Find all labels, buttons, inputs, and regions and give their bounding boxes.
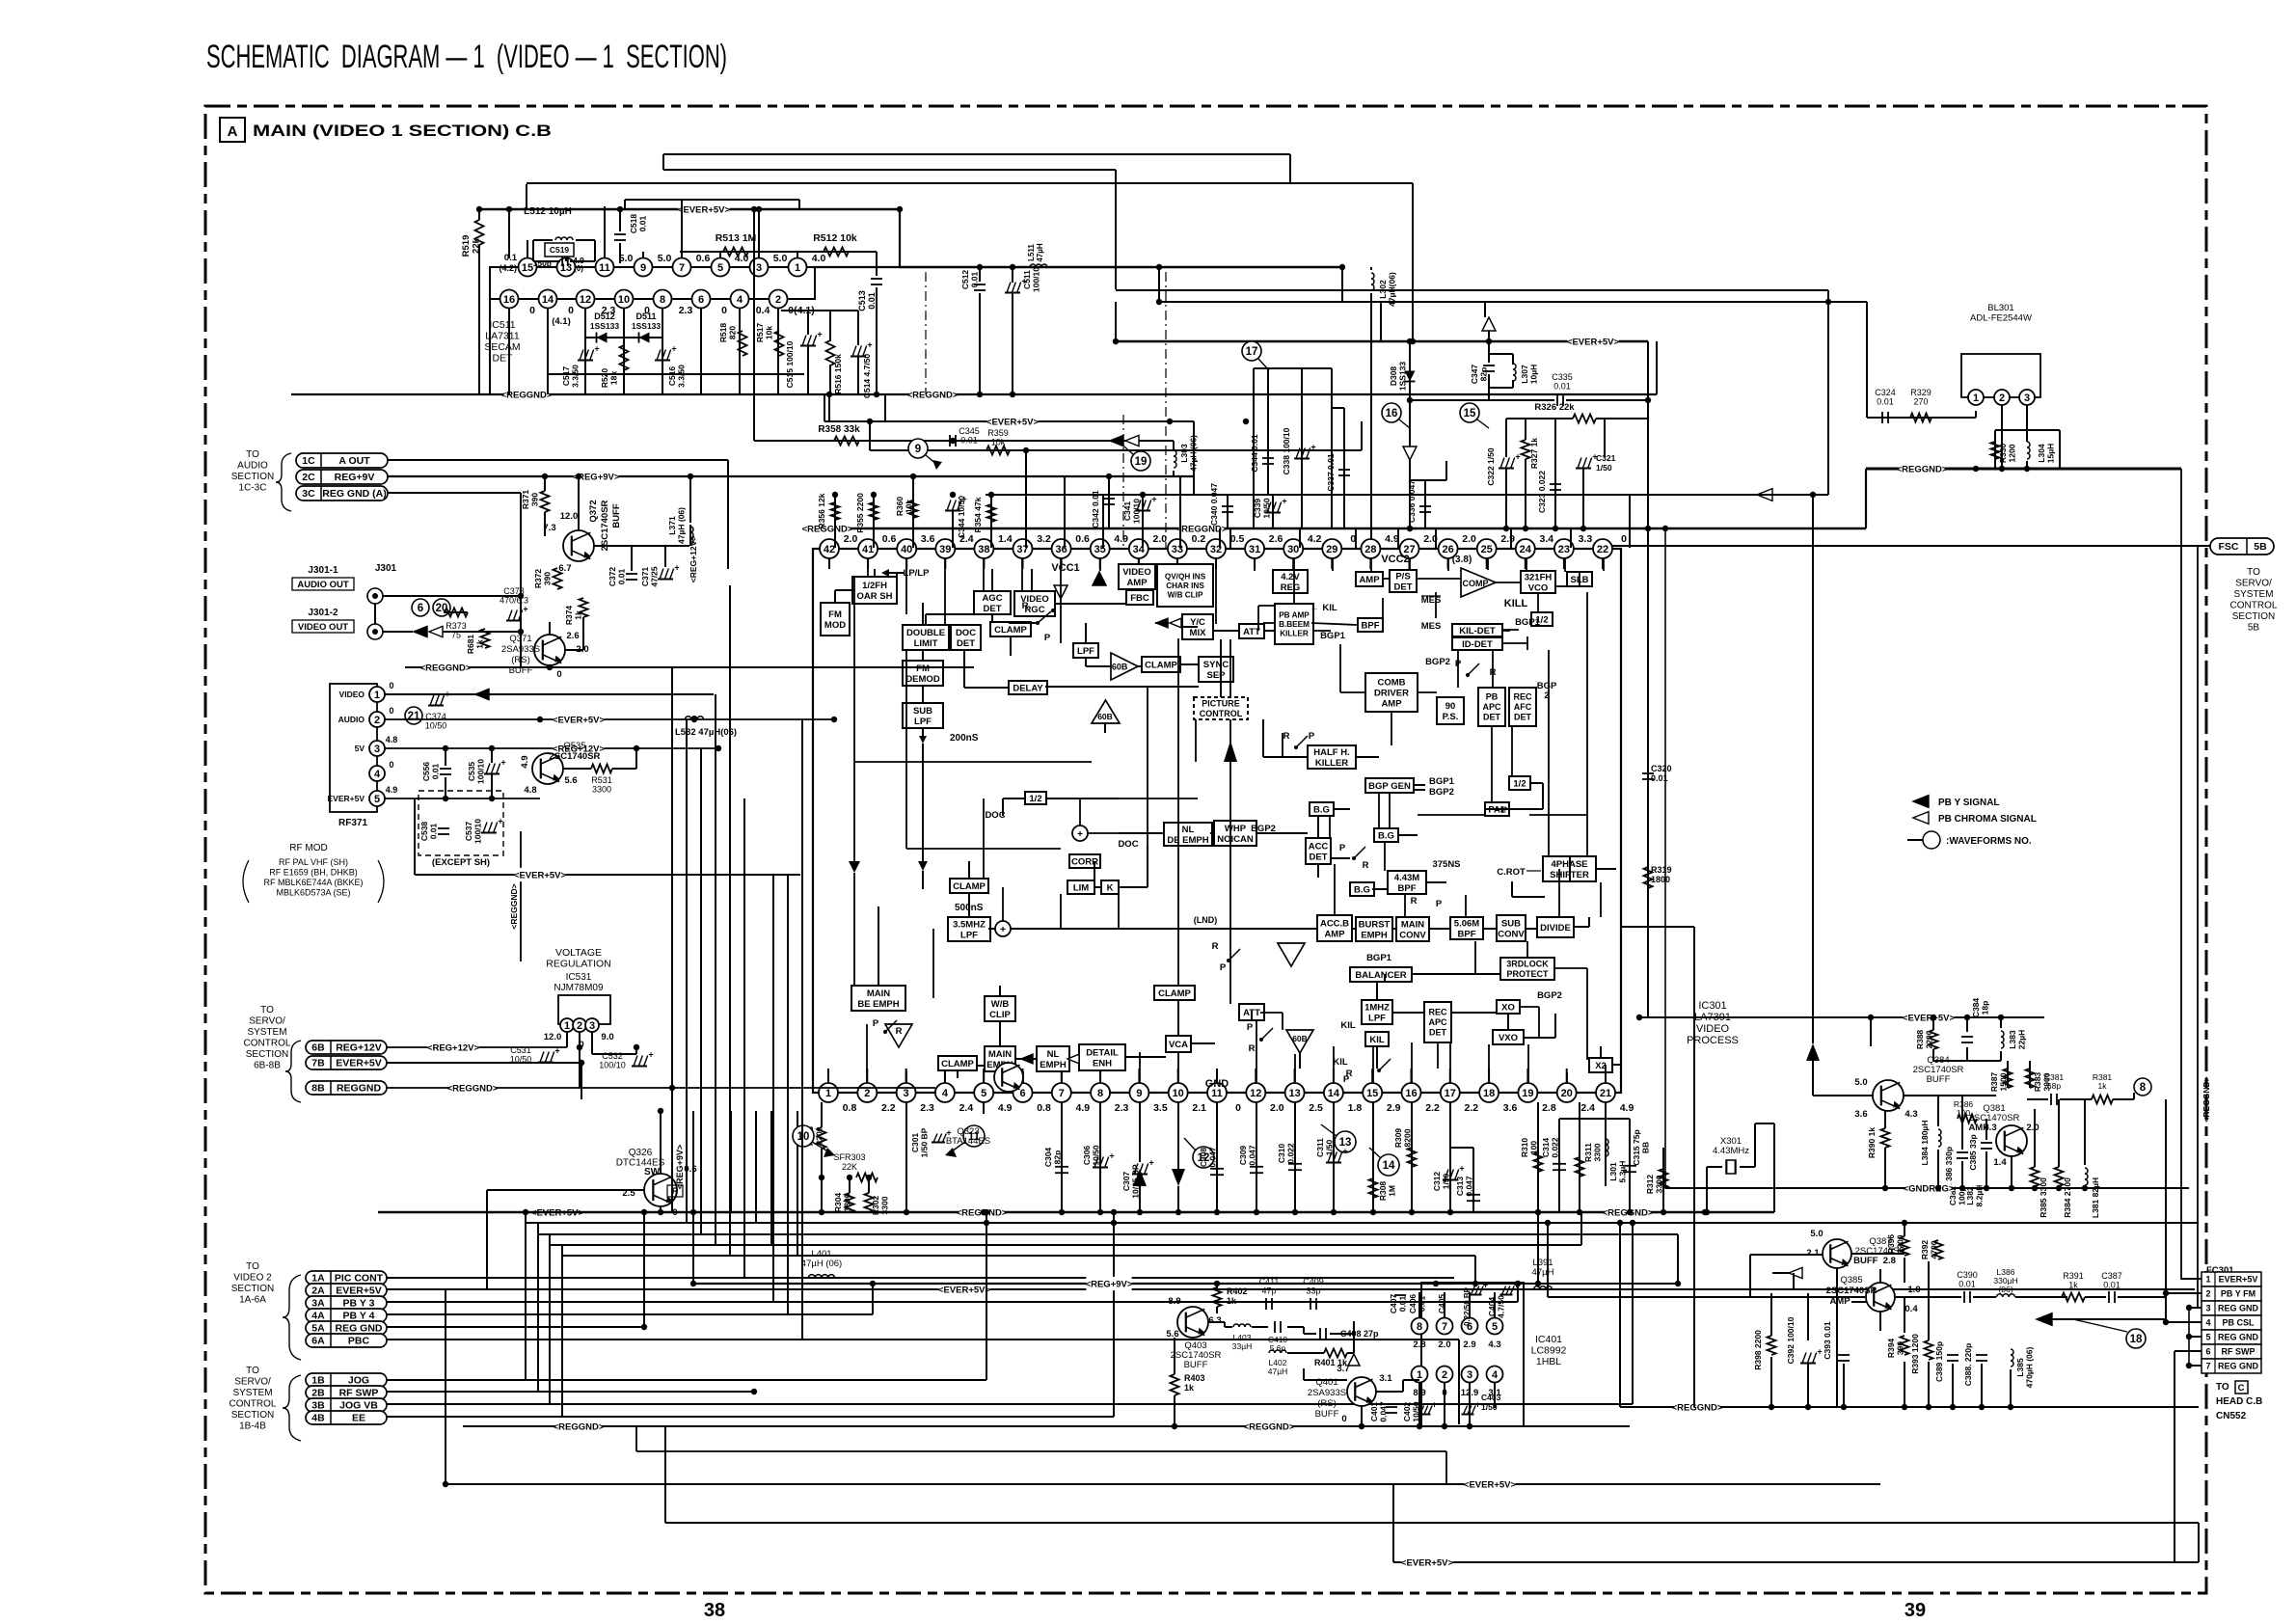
wire [1505,419,1507,457]
svg-text:R403: R403 [1184,1373,1205,1383]
junction [1931,1015,1936,1020]
IC301 internal box B.G box [1374,828,1398,842]
svg-text:C313: C313 [1455,1177,1465,1197]
svg-text:C323 0.022: C323 0.022 [1537,471,1547,513]
net label EVER+5V [1567,335,1618,348]
junction [1769,1404,1774,1410]
wire [957,1070,959,1078]
svg-text:30: 30 [1287,544,1299,555]
svg-text:5.0: 5.0 [773,253,788,264]
wire [445,748,446,766]
svg-text:<REG+12V>: <REG+12V> [427,1042,480,1053]
wire [561,1245,563,1417]
capacitor C336 0.047 [1424,480,1426,528]
svg-text:6: 6 [418,603,423,614]
wire [1003,798,1025,799]
wire [1260,1012,1283,1014]
svg-text:38: 38 [704,1600,725,1621]
wire [1502,630,1510,632]
wire [1851,1253,1904,1255]
wire [1180,663,1199,665]
wire pill 2A EVER+5V [387,1288,2195,1290]
signal arrow down [1172,1169,1185,1186]
svg-text:2.0: 2.0 [1270,1102,1284,1114]
junction [1059,1209,1065,1215]
svg-text:REGULATION: REGULATION [546,959,610,970]
svg-text:MIX: MIX [1190,628,1207,638]
svg-text:Q326: Q326 [629,1148,653,1158]
wire [1896,1296,1961,1298]
wire [1474,1256,1476,1284]
svg-text:VCO: VCO [1528,582,1549,593]
wire [1116,289,1828,291]
svg-text:38: 38 [978,544,989,555]
wire [1629,495,1631,548]
amplifier 60B [1111,653,1138,680]
svg-text:47µH: 47µH [1036,243,1044,262]
wire pill 4A PB Y 4 [387,1313,873,1315]
wire [1208,1321,1225,1323]
svg-text:C338 100/10: C338 100/10 [1282,427,1291,474]
svg-text:C371: C371 [640,567,650,587]
svg-text:2A: 2A [311,1286,325,1297]
wire [526,1222,2199,1224]
svg-text:DE EMPH: DE EMPH [1167,835,1208,846]
wire [1447,558,1449,569]
svg-text:P.S.: P.S. [1443,712,1459,722]
svg-text:4: 4 [374,769,381,780]
svg-text:+: + [1310,443,1315,452]
svg-text:ACC: ACC [1309,841,1329,852]
svg-text:KIL: KIL [1322,603,1337,613]
wire [508,309,510,394]
svg-text:2SC1740SR: 2SC1740SR [1826,1286,1877,1296]
svg-text:6A: 6A [311,1336,325,1347]
svg-text:12.0: 12.0 [560,511,579,522]
wire [896,573,898,577]
wire [643,1212,645,1327]
svg-text:<EVER+5V>: <EVER+5V> [938,1285,991,1295]
connector 1C A OUT [296,453,388,468]
wire [968,861,970,879]
svg-text:COMB: COMB [1377,677,1405,688]
wire [1138,558,1140,564]
svg-text:2: 2 [1999,392,2005,404]
IC301 internal box B.G box [1310,802,1334,816]
wire [1022,558,1024,569]
wire [1376,1391,1403,1393]
wire [1865,469,1867,528]
svg-text:39: 39 [939,544,951,555]
IC301 internal box CLAMP box [990,622,1031,636]
IC301 pin 21 [1596,1083,1615,1102]
svg-text:R384 2700: R384 2700 [2063,1177,2072,1218]
svg-text:18: 18 [2130,1334,2143,1345]
wire [1393,1222,1904,1224]
svg-text:+: + [648,1050,653,1060]
svg-text:16: 16 [1386,408,1398,420]
wire [1099,558,1101,569]
inductor L304 15uH [2027,442,2030,447]
svg-text:4.9: 4.9 [520,755,530,768]
wire [797,1111,798,1256]
wire [1866,302,1868,418]
wire [1299,1053,1301,1069]
wire [1355,528,1357,548]
svg-text:TO: TO [260,1005,274,1015]
svg-text:PBC: PBC [348,1336,370,1347]
junction [950,438,956,444]
wire [1754,1123,1756,1167]
svg-text:82p: 82p [1479,367,1489,382]
IC531 pin 1 [560,1018,574,1032]
net label EVER+5V [553,713,604,726]
svg-text:COMP: COMP [1463,579,1489,588]
legend PB Y SIGNAL [1913,796,1929,808]
svg-text:<EVER+5V>: <EVER+5V> [1401,1557,1454,1568]
svg-text:CONV: CONV [1399,930,1426,940]
capacitor C517 3.3/50 [578,360,593,362]
svg-text:C401: C401 [1369,1402,1379,1422]
wire [730,1111,732,1212]
resistor R308 1M [1372,1102,1374,1212]
svg-text:1SS133: 1SS133 [1398,362,1408,392]
wire [1558,869,1560,917]
resistor R383 3900 [2026,1069,2035,1088]
svg-text:0: 0 [389,706,393,716]
inductor L307 10uH [1512,354,1514,365]
svg-text:18p: 18p [1981,1001,1990,1015]
svg-text:R311: R311 [1583,1143,1593,1162]
IC301 internal box VXO box [1493,1030,1524,1044]
svg-text:0.01: 0.01 [2103,1281,2120,1290]
net label REG+12V [427,1041,478,1054]
wire [1770,1357,1772,1407]
wire [1158,267,1160,302]
svg-text:BUFF: BUFF [1184,1360,1208,1370]
resistor R311 3300 [1579,1102,1580,1212]
wire [1426,881,1446,883]
svg-text:29: 29 [1326,544,1337,555]
capacitor C342 0.01 [1108,476,1110,528]
svg-text:SUB: SUB [913,706,932,717]
wire [635,1426,637,1451]
wire GNDREG bus [1871,1187,2189,1189]
amplifier triangle [1278,943,1305,966]
wire [979,293,981,394]
wire [612,768,636,770]
inductor L303 47uH(06) [1174,450,1176,456]
svg-text:41: 41 [862,544,874,555]
wire [983,1071,985,1083]
capacitor C513 0.01 [871,278,882,280]
wire EVER+5V [385,718,834,720]
junction [691,717,697,722]
svg-text:HEAD C.B: HEAD C.B [2216,1396,2262,1407]
svg-text:6B: 6B [311,1042,325,1054]
svg-text:BUFF: BUFF [1927,1074,1951,1085]
net label REGGND [503,388,549,401]
svg-text:2.3: 2.3 [1115,1102,1129,1114]
wire [1094,861,1095,880]
junction [1841,1404,1847,1410]
wire [1055,603,1126,605]
junction [518,593,524,599]
wire [662,309,663,394]
inductor L384 180uH [1938,1129,1941,1135]
svg-text:B.BEEM: B.BEEM [1279,620,1310,629]
IC401 pin 7 [1437,1318,1453,1335]
svg-text:CLIP: CLIP [989,1010,1011,1020]
wire [1469,1292,1471,1317]
svg-text:DOUBLE: DOUBLE [906,628,945,638]
svg-text:11: 11 [599,262,610,274]
capacitor C310 0.022 [1294,1102,1296,1212]
svg-text:VIDEO: VIDEO [339,690,365,699]
svg-text:C532: C532 [602,1051,623,1061]
junction [831,717,837,722]
svg-text:R516 150k: R516 150k [833,354,843,394]
wire [983,558,985,591]
IC301 internal box P/S DET [1390,570,1417,592]
wire [1555,585,1567,587]
wire [1465,895,1467,917]
junction [669,1085,675,1091]
IC301 internal box BURST EMPH box [1356,917,1392,941]
IC301 pin 33 [1168,539,1187,558]
svg-text:D512: D512 [594,311,615,321]
junction [690,1209,696,1215]
svg-text:2: 2 [775,294,781,306]
wire [664,1426,666,1523]
transistor Q372 2SC1740SR BUFF [563,530,594,561]
junction [1111,1209,1117,1215]
resistor R394 390 [1901,1336,1909,1355]
svg-text:2.2: 2.2 [1425,1102,1440,1114]
svg-text:C517: C517 [561,366,571,387]
wire [1193,421,1195,495]
signal arrow [919,736,927,744]
IC301 internal box MAIN EMPH box [985,1046,1015,1071]
IC301 internal box CORR box [1069,854,1100,868]
wire [660,1111,662,1174]
junction [910,474,916,479]
svg-text:0: 0 [556,669,561,680]
svg-text:47µH(06): 47µH(06) [1388,272,1397,307]
svg-text:<EVER+5V>: <EVER+5V> [1567,337,1620,347]
connector 2B RF SWP [306,1386,387,1399]
svg-text:EVER+5V: EVER+5V [327,794,365,803]
junction [1553,526,1558,531]
IC301 internal box VIDEO RGC [1014,591,1055,616]
transistor Q384 2SC1740SR BUFF [1873,1080,1904,1111]
svg-text:FM: FM [916,663,930,674]
wire [2084,1187,2086,1189]
junction [537,717,543,722]
svg-text:8: 8 [660,294,665,306]
wire [1118,887,1120,929]
brace [285,1041,301,1102]
wire [986,1212,987,1380]
svg-text:4: 4 [737,294,743,306]
capacitor C344 10/50 [945,510,960,512]
svg-text:<REGGND>: <REGGND> [907,390,959,400]
wire [1389,793,1391,828]
svg-text:R358 33k: R358 33k [818,424,860,435]
wire [1341,267,1343,302]
IC511 pin 13 [557,258,576,277]
IC511 pin 14 [539,290,557,309]
svg-text:RF SWP: RF SWP [2222,1347,2255,1357]
wire [544,512,546,536]
wire [1333,1069,1335,1083]
wire [1229,639,1231,697]
wire [1489,353,1513,355]
svg-text:4A: 4A [311,1311,325,1322]
svg-text:+: + [500,758,505,768]
IC301 internal box 4.43M BPF box [1388,871,1426,894]
connector FC301 pin 7 REG GND [2201,1359,2261,1373]
svg-text:10µH: 10µH [1529,365,1539,385]
inductor L302 47uH(06) [1371,273,1374,279]
small triangle up [1093,572,1106,585]
svg-text:HALF H.: HALF H. [1313,747,1349,758]
wire [1011,928,1061,930]
svg-text:16: 16 [1405,1088,1417,1099]
wire [1566,1069,1568,1083]
svg-text:3: 3 [2205,1304,2210,1313]
resistor R516 150k [826,340,835,365]
svg-text:C403: C403 [1481,1393,1501,1402]
svg-text:(EXCEPT SH): (EXCEPT SH) [432,857,490,868]
wire pill 3B JOG VB [387,1403,1633,1405]
svg-text:8200: 8200 [1403,1128,1413,1147]
wire [520,831,522,961]
svg-text:<REG+9V>: <REG+9V> [1086,1279,1133,1289]
wire [1488,388,1490,400]
svg-text:VIDEO 2: VIDEO 2 [233,1273,272,1284]
svg-text:12.0: 12.0 [544,1032,562,1042]
wire [905,1069,907,1083]
net label REG+9V [1086,1277,1131,1290]
IC301 internal box QV/QH INS CHAR INS W/B CLIP [1157,564,1213,607]
svg-text:<EVER+5V>: <EVER+5V> [553,715,606,725]
wire [1339,644,1341,692]
capacitor C345 0.01 [949,435,951,447]
resistor R374 1k [580,598,588,617]
wire [414,798,416,875]
svg-text:AMP: AMP [1324,929,1345,939]
svg-text:25: 25 [1481,544,1493,555]
svg-text:BGP GEN: BGP GEN [1368,781,1411,792]
net label EVER+5V [531,1205,582,1219]
capacitor C313 0.047 [1472,1148,1474,1212]
svg-text:+: + [594,344,599,354]
svg-text:XO: XO [1501,1002,1515,1013]
junction [1331,1209,1337,1215]
junction [1662,526,1668,531]
svg-text:J301-1: J301-1 [308,565,338,576]
svg-text:15µH: 15µH [2046,444,2056,464]
svg-text:R402: R402 [1227,1286,1248,1296]
svg-text:C320: C320 [1651,764,1672,773]
wire [1331,558,1333,569]
svg-text:NOICAN: NOICAN [1217,834,1254,845]
svg-text:1M: 1M [1388,1185,1397,1197]
svg-text:1k: 1k [2098,1081,2108,1091]
wire [1115,302,1117,341]
wire [1425,479,1446,481]
svg-text:C386 330p: C386 330p [1944,1147,1954,1187]
wire [1444,1292,1445,1317]
wire [821,1149,823,1212]
resistor R512 10k [824,248,849,257]
svg-text:C409: C409 [1303,1277,1324,1286]
junction [984,1209,989,1215]
wire [1603,545,2210,547]
wire [1574,926,1589,928]
wire [1586,968,1588,1060]
wire [1219,528,1221,548]
paren [243,860,249,903]
svg-text:R394: R394 [1886,1339,1896,1359]
IC301 pin 17 [1441,1083,1460,1102]
svg-text:0: 0 [389,681,393,690]
svg-text:5.0: 5.0 [1854,1077,1867,1088]
svg-text:1B-4B: 1B-4B [239,1421,266,1432]
capacitor C304 82p [1061,1102,1063,1212]
resistor R396 2200 [1901,1236,1909,1256]
wire [884,394,886,421]
wire EVER+5V bus [479,208,900,210]
IC301 pin 9 [1129,1083,1148,1102]
wire [1329,816,1331,838]
svg-text:SUB: SUB [1501,918,1521,929]
wire [1966,1017,1968,1032]
svg-text:BGP1: BGP1 [1515,617,1541,628]
connector RF371 body [330,684,377,812]
svg-text:TO: TO [246,1366,259,1376]
switch [1261,1028,1273,1040]
transistor Q371 2SA933S [534,635,565,665]
capacitor C321 1/50 [1576,468,1591,470]
junction [1935,1185,1941,1191]
wire [1125,1056,1166,1058]
IC511 pin 16 [500,290,519,309]
wire [2181,1278,2201,1280]
svg-text:C411: C411 [1259,1277,1280,1286]
capacitor C374 10/50 [428,705,444,707]
wire [1370,558,1372,572]
wire [1317,815,1319,838]
signal arrow [1224,741,1237,762]
resistor R386 100 [1958,1115,1977,1123]
wire EVER+5V [1871,1016,2044,1018]
wire [758,209,760,258]
wire [2189,1307,2201,1309]
IC301 pin 27 [1400,539,1419,558]
svg-text:SERVO/: SERVO/ [2235,579,2272,589]
wire [944,558,946,569]
junction [443,745,448,751]
svg-text:REG GND: REG GND [335,1323,382,1335]
svg-text:ADL-FE2544W: ADL-FE2544W [1970,313,2032,324]
IC301 internal box 4.2V REG [1273,570,1308,593]
signal arrow [1021,1054,1033,1064]
svg-text:EVER+5V: EVER+5V [2219,1275,2258,1285]
svg-text:1800: 1800 [1651,875,1670,884]
IC301 internal box MAIN CONV box [1396,917,1429,941]
